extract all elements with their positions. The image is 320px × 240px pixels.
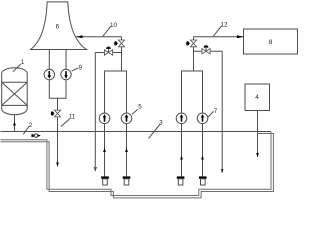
valve V11	[54, 110, 60, 117]
wire riser right group	[193, 37, 195, 71]
arrow pump 9a	[48, 71, 50, 76]
wire branch left group	[95, 52, 121, 54]
box 8	[244, 29, 298, 54]
flow element on line 2	[31, 134, 33, 137]
pump 9a	[44, 69, 54, 79]
label 5	[132, 109, 138, 114]
arrow drain down	[56, 163, 59, 167]
arrow into vessel up	[13, 122, 16, 126]
wire line 2/3 main horizontal	[1, 131, 272, 133]
wire vessel drain	[14, 115, 16, 132]
label 2	[23, 126, 29, 134]
wire nozzle line 7b	[202, 124, 204, 177]
nozzle N2	[123, 176, 131, 178]
wire box 4 drop	[257, 111, 259, 158]
header pipe right group	[182, 71, 203, 124]
pump internal arrows	[48, 71, 205, 122]
label 12	[213, 26, 222, 37]
arrow box4 down	[256, 153, 259, 157]
svg-text:11: 11	[69, 114, 76, 121]
arrow up 7a	[180, 156, 183, 160]
svg-text:2: 2	[29, 122, 33, 129]
wire drain from U	[57, 98, 59, 166]
pump 7a	[176, 113, 187, 124]
arrow pump 9b	[65, 71, 67, 76]
arrow up 7b	[201, 156, 204, 160]
nozzle N4	[199, 176, 207, 178]
arrow pump 7b	[202, 117, 204, 122]
control valve CV2	[202, 49, 210, 54]
pump 5b	[121, 113, 132, 124]
svg-text:12: 12	[221, 22, 228, 29]
wire nozzle line 7a	[181, 124, 183, 177]
wire nozzle line 5a	[104, 124, 106, 177]
pump 7b	[197, 113, 208, 124]
nozzle N3	[177, 176, 185, 178]
nozzle N1	[101, 176, 109, 178]
arrow pump 5b	[126, 117, 128, 122]
valve V2 vertical	[190, 40, 196, 47]
svg-text:8: 8	[269, 39, 273, 46]
svg-text:3: 3	[159, 120, 163, 127]
cooling tower 6	[31, 2, 87, 50]
wire tower base to pump 9b	[65, 50, 67, 70]
arrow into box 8	[237, 35, 244, 38]
wire tower base to pump 9a	[48, 50, 50, 70]
wire branch right group	[194, 50, 223, 52]
svg-text:7: 7	[214, 108, 218, 115]
arrow branch right down	[221, 169, 223, 173]
svg-text:6: 6	[56, 24, 60, 31]
label 3	[149, 124, 161, 138]
arrow pump 7a	[181, 117, 183, 122]
pump 9b	[61, 69, 71, 79]
wire riser left group	[121, 37, 123, 71]
trench channel	[1, 132, 274, 198]
wire line 10	[76, 36, 122, 38]
control valve CV1	[104, 50, 112, 55]
wire U below pumps 9	[49, 80, 66, 99]
svg-text:9: 9	[78, 65, 82, 72]
label 10	[103, 26, 111, 36]
header pipe left group	[105, 71, 127, 124]
vessel 1	[2, 68, 28, 115]
valve V1 vertical	[118, 40, 124, 47]
label 1	[13, 64, 21, 72]
svg-text:4: 4	[255, 94, 259, 101]
pump 5a	[99, 113, 110, 124]
label 9	[72, 68, 79, 71]
box 4	[245, 84, 270, 111]
arrow branch left down	[94, 167, 96, 170]
arrow up 5b	[125, 148, 128, 152]
wire line 12	[194, 36, 244, 38]
arrow into tower	[76, 35, 83, 38]
label 11	[61, 119, 70, 127]
arrow pump 5a	[104, 117, 106, 122]
svg-text:5: 5	[138, 104, 142, 111]
wire branch drop left	[94, 53, 96, 171]
arrow up 5a	[103, 148, 106, 152]
svg-text:1: 1	[21, 59, 25, 66]
svg-text:10: 10	[110, 22, 117, 29]
label 7	[208, 111, 214, 117]
wire nozzle line 5b	[126, 124, 128, 177]
wire branch drop right	[221, 51, 223, 173]
